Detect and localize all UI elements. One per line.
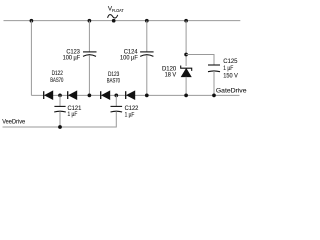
node dot VFLOAT <box>112 19 116 23</box>
node dot row C124 <box>145 94 149 98</box>
capacitor C121 <box>54 106 66 112</box>
diode D123b <box>126 90 136 100</box>
wire gate drive row <box>31 94 239 96</box>
svg-text:100 µF: 100 µF <box>120 55 138 62</box>
wire C124 top lead <box>146 21 148 52</box>
svg-text:150 V: 150 V <box>223 72 238 79</box>
wire top rail VFLOAT <box>4 20 241 22</box>
node dot row zener <box>184 94 188 98</box>
wire C121 bottom lead <box>59 111 61 127</box>
diode D122a <box>44 90 54 100</box>
svg-text:1 µF: 1 µF <box>68 111 78 118</box>
wire C122 bottom lead <box>3 111 117 127</box>
svg-text:GateDrive: GateDrive <box>216 87 247 94</box>
capacitor C124 <box>140 52 154 57</box>
wire C122 top lead <box>115 95 117 106</box>
wire zener bottom lead <box>185 77 187 96</box>
diode D122b <box>68 90 78 100</box>
svg-text:BAS70: BAS70 <box>50 78 64 84</box>
svg-text:100 µF: 100 µF <box>63 54 81 61</box>
svg-text:FLOAT: FLOAT <box>112 8 124 14</box>
svg-text:D122: D122 <box>52 71 64 77</box>
node dot top rail 4 <box>184 19 188 23</box>
capacitor C125 <box>208 65 220 72</box>
svg-text:VeeDrive: VeeDrive <box>2 118 25 125</box>
node dot top rail 2 <box>88 19 92 23</box>
zener diode D120 <box>181 66 192 77</box>
node dot zener branch <box>184 53 188 57</box>
svg-text:1 µF: 1 µF <box>223 65 233 72</box>
node dot row C125 <box>212 94 216 98</box>
node dot row C121 <box>58 94 62 98</box>
wire C125 bottom lead <box>213 71 215 95</box>
node dot VeeDrive rail <box>58 125 62 129</box>
node dot top rail 1 <box>30 19 34 23</box>
capacitor C123 <box>83 52 97 57</box>
node dot row C122 <box>114 94 118 98</box>
node dot row C123 <box>88 94 92 98</box>
svg-text:1 µF: 1 µF <box>125 111 135 118</box>
wire C123 top lead <box>88 21 90 52</box>
svg-text:18 V: 18 V <box>165 72 177 79</box>
svg-text:D123: D123 <box>108 72 120 78</box>
capacitor C122 <box>111 106 123 112</box>
node dot top rail 3 <box>145 19 149 23</box>
node VFLOAT squiggle <box>108 15 118 18</box>
wire left vertical <box>30 21 32 96</box>
wire C124 bottom lead <box>146 56 148 96</box>
diode D123a <box>101 90 111 100</box>
wire C123 bottom lead <box>88 56 90 96</box>
wire zener top lead <box>185 21 187 66</box>
wire C121 top lead <box>59 95 61 106</box>
wire branch to C125 <box>186 55 214 66</box>
svg-text:BAS70: BAS70 <box>107 79 121 85</box>
